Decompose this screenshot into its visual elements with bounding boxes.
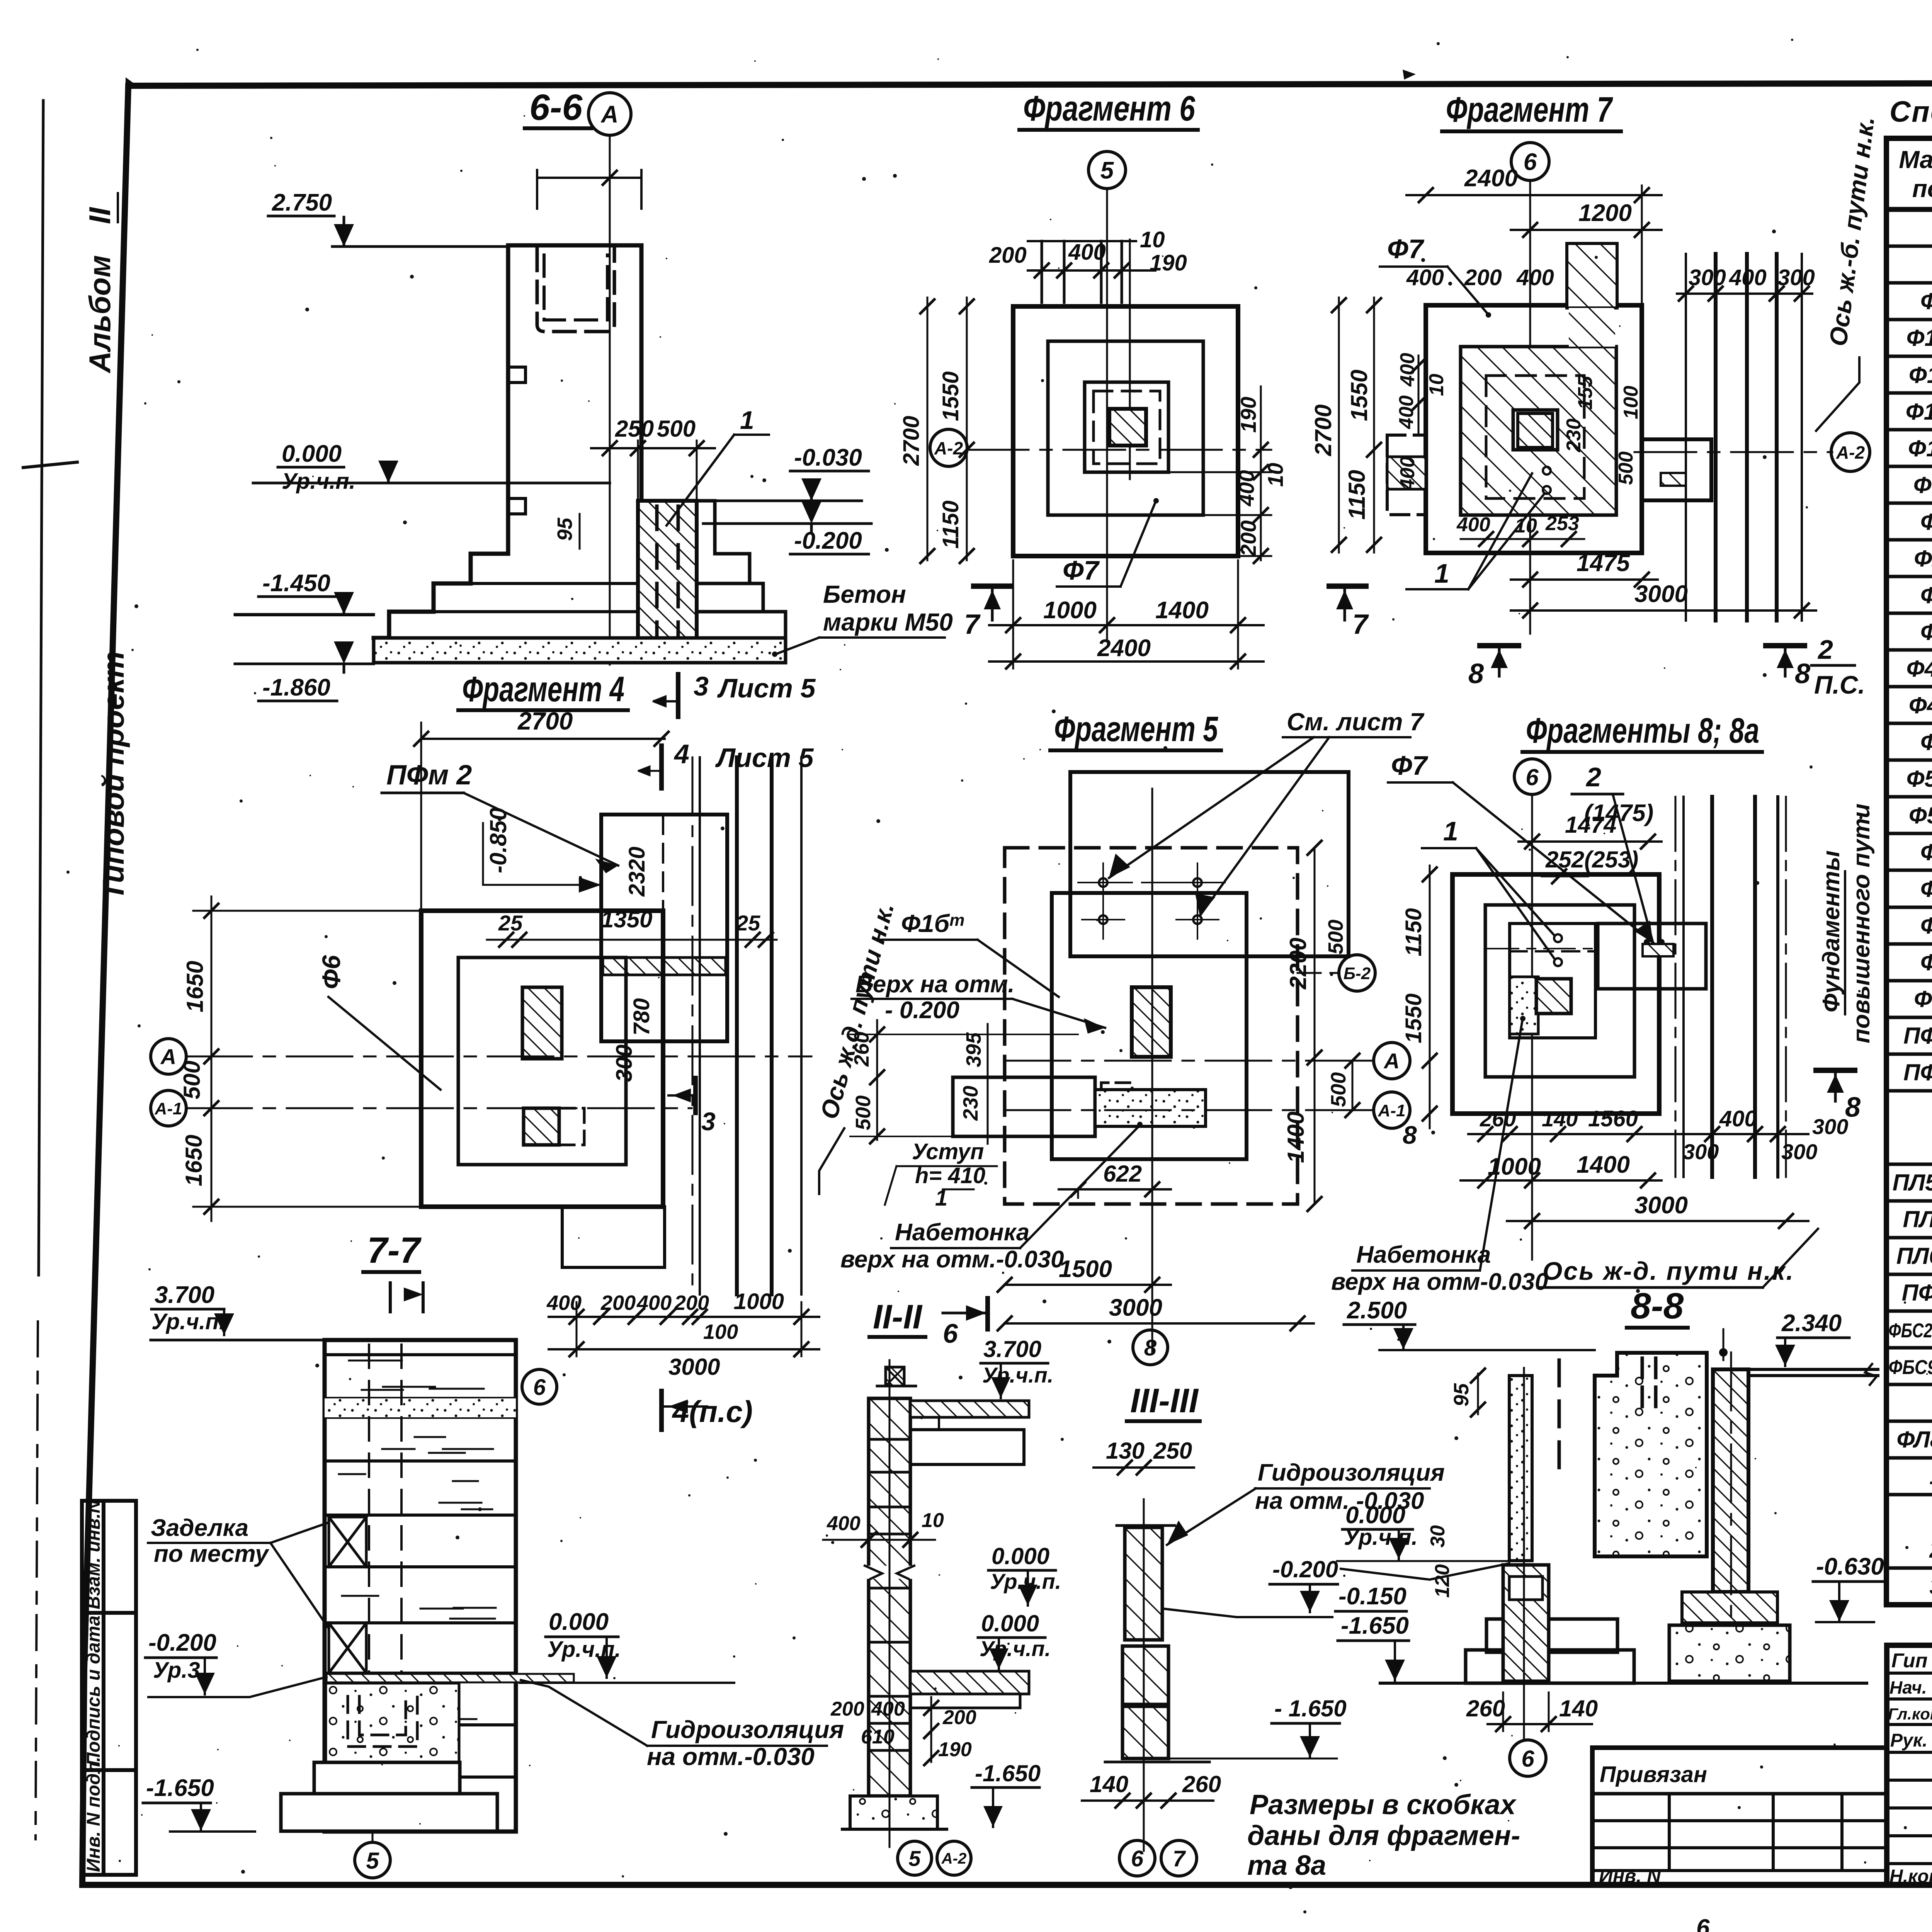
svg-text:30: 30 <box>1427 1525 1449 1548</box>
svg-text:Ф4ат: Ф4ат <box>1906 655 1932 682</box>
svg-text:200: 200 <box>1236 520 1260 557</box>
svg-text:1400: 1400 <box>1283 1112 1309 1163</box>
svg-text:7: 7 <box>964 609 981 640</box>
svg-text:Ур.ч.п.: Ур.ч.п. <box>1344 1525 1418 1550</box>
svg-text:190: 190 <box>1150 250 1187 276</box>
svg-text:Ф4: Ф4 <box>1920 619 1932 645</box>
svg-text:Ф5ат: Ф5ат <box>1906 765 1932 792</box>
svg-text:0.000: 0.000 <box>282 440 342 467</box>
svg-text:2320: 2320 <box>624 847 650 897</box>
svg-text:Ф1ан: Ф1ан <box>1909 361 1932 388</box>
svg-text:0.000: 0.000 <box>992 1543 1049 1569</box>
svg-text:253: 253 <box>1545 512 1579 535</box>
svg-text:Ф5: Ф5 <box>1920 729 1932 755</box>
svg-text:200: 200 <box>674 1291 709 1315</box>
svg-text:1550: 1550 <box>1401 993 1426 1043</box>
svg-text:ПФм1: ПФм1 <box>1903 1023 1932 1049</box>
svg-text:Ф2а: Ф2а <box>1914 546 1932 571</box>
svg-text:А-2: А-2 <box>934 438 963 458</box>
svg-text:500: 500 <box>1324 920 1347 954</box>
svg-text:500: 500 <box>179 1061 205 1099</box>
svg-text:5: 5 <box>908 1846 921 1871</box>
svg-text:П.С.: П.С. <box>1814 670 1865 699</box>
svg-text:Ф3: Ф3 <box>1920 582 1932 608</box>
svg-text:Инв. N подл.: Инв. N подл. <box>83 1757 104 1872</box>
svg-text:ПЛ6-4: ПЛ6-4 <box>1903 1206 1932 1232</box>
svg-text:6-6: 6-6 <box>529 87 583 128</box>
svg-text:2700: 2700 <box>517 707 573 735</box>
svg-text:190: 190 <box>1236 397 1260 433</box>
svg-text:повышенного пути: повышенного пути <box>1848 803 1875 1043</box>
svg-text:1474: 1474 <box>1565 812 1616 838</box>
svg-text:Ф8: Ф8 <box>1920 913 1932 939</box>
svg-text:Фрагмент 7: Фрагмент 7 <box>1446 90 1613 129</box>
svg-text:-0.630: -0.630 <box>1816 1553 1884 1580</box>
svg-text:400: 400 <box>1395 395 1418 429</box>
svg-text:3000: 3000 <box>1634 581 1688 607</box>
svg-text:7: 7 <box>1173 1846 1186 1871</box>
title block <box>1592 1604 1932 1932</box>
svg-text:260: 260 <box>1480 1107 1516 1131</box>
svg-text:610: 610 <box>861 1726 895 1748</box>
svg-text:622: 622 <box>1103 1161 1142 1187</box>
svg-text:Ф2: Ф2 <box>1920 509 1932 535</box>
svg-text:400: 400 <box>1406 265 1444 290</box>
svg-text:100: 100 <box>703 1320 738 1344</box>
Fragments 8, 8a plan <box>1331 711 1876 1295</box>
svg-text:2: 2 <box>1929 1537 1932 1563</box>
svg-text:Ф9: Ф9 <box>1920 949 1932 975</box>
svg-text:Верх на отм.: Верх на отм. <box>855 971 1015 998</box>
svg-text:1: 1 <box>1443 816 1458 846</box>
svg-text:Фрагмент 6: Фрагмент 6 <box>1023 89 1196 128</box>
svg-text:-1.860: -1.860 <box>262 674 330 701</box>
svg-text:500: 500 <box>1327 1072 1350 1107</box>
section 6-6 (top left foundation elevation) <box>235 87 953 911</box>
svg-text:Размеры в скобках: Размеры в скобках <box>1250 1789 1517 1820</box>
svg-text:100: 100 <box>1620 386 1642 419</box>
svg-text:1150: 1150 <box>1401 908 1426 956</box>
svg-text:7-7: 7-7 <box>367 1230 422 1271</box>
svg-text:Ф1бн: Ф1бн <box>1908 434 1932 461</box>
svg-text:0.000: 0.000 <box>981 1611 1039 1636</box>
svg-text:ПФ5-4: ПФ5-4 <box>1902 1280 1932 1306</box>
svg-text:3000: 3000 <box>1634 1192 1688 1219</box>
svg-text:Ф6: Ф6 <box>1920 839 1932 865</box>
svg-text:III-III: III-III <box>1130 1381 1199 1420</box>
svg-text:3.700: 3.700 <box>983 1336 1041 1362</box>
svg-text:-1.650: -1.650 <box>146 1775 214 1801</box>
svg-text:3: 3 <box>694 671 709 701</box>
svg-text:верх на отм.-0.030: верх на отм.-0.030 <box>840 1246 1064 1273</box>
svg-text:6: 6 <box>533 1375 546 1400</box>
svg-text:А: А <box>160 1044 176 1069</box>
svg-text:ФБС9.4.6-Т: ФБС9.4.6-Т <box>1889 1356 1932 1379</box>
svg-text:Фрагмент 4: Фрагмент 4 <box>462 670 624 709</box>
svg-text:120: 120 <box>1431 1564 1454 1598</box>
svg-text:Ф5ан: Ф5ан <box>1909 801 1932 828</box>
svg-text:300: 300 <box>1781 1139 1817 1164</box>
svg-text:2.340: 2.340 <box>1781 1310 1842 1337</box>
svg-text:3000: 3000 <box>668 1354 720 1380</box>
svg-text:Гип: Гип <box>1891 1650 1927 1672</box>
svg-text:Заделка: Заделка <box>151 1515 248 1541</box>
svg-text:25: 25 <box>498 911 523 935</box>
svg-text:7: 7 <box>1352 609 1369 640</box>
svg-text:А: А <box>600 101 619 128</box>
svg-text:- 0.200: - 0.200 <box>885 997 959 1024</box>
svg-text:-0.030: -0.030 <box>794 444 862 471</box>
svg-text:260: 260 <box>1466 1696 1505 1721</box>
svg-text:400: 400 <box>1396 456 1419 490</box>
svg-text:-1.650: -1.650 <box>1341 1612 1409 1639</box>
svg-text:1400: 1400 <box>1577 1151 1630 1178</box>
svg-text:Лист 5: Лист 5 <box>715 743 814 773</box>
svg-text:2.500: 2.500 <box>1347 1297 1407 1324</box>
svg-text:Нач. отд.: Нач. отд. <box>1889 1677 1932 1697</box>
svg-text:1: 1 <box>1434 558 1449 588</box>
svg-text:Гл.констр.: Гл.констр. <box>1888 1705 1932 1723</box>
svg-text:2200: 2200 <box>1285 938 1311 990</box>
svg-text:2700: 2700 <box>1310 405 1336 456</box>
svg-text:8: 8 <box>1403 1121 1417 1149</box>
svg-text:400: 400 <box>1068 240 1106 265</box>
svg-text:1: 1 <box>740 406 754 434</box>
svg-text:1650: 1650 <box>181 1135 207 1186</box>
svg-text:1150: 1150 <box>938 500 963 549</box>
svg-text:1650: 1650 <box>182 961 208 1012</box>
svg-text:6: 6 <box>943 1318 958 1349</box>
svg-text:1000: 1000 <box>1043 597 1097 624</box>
svg-text:Инв. N: Инв. N <box>1599 1865 1661 1887</box>
section 8-8 <box>1335 1286 1884 1776</box>
svg-text:1550: 1550 <box>1346 370 1372 421</box>
svg-text:ПФм2: ПФм2 <box>1903 1060 1932 1085</box>
svg-text:395: 395 <box>962 1032 985 1067</box>
svg-text:10: 10 <box>1140 227 1165 252</box>
svg-text:200: 200 <box>942 1706 976 1729</box>
svg-text:260: 260 <box>850 1032 873 1067</box>
svg-text:Ф4ан: Ф4ан <box>1909 691 1932 718</box>
svg-text:Лист 5: Лист 5 <box>717 673 816 703</box>
svg-text:Ф1в: Ф1в <box>1913 472 1932 498</box>
svg-text:Ур.ч.п.: Ур.ч.п. <box>151 1309 225 1334</box>
svg-text:А-2: А-2 <box>941 1850 966 1867</box>
svg-text:Фрагменты 8; 8а: Фрагменты 8; 8а <box>1526 711 1759 750</box>
Fragment 4 plan <box>151 757 900 1430</box>
svg-text:1350: 1350 <box>601 906 652 932</box>
svg-text:-1.450: -1.450 <box>262 570 330 597</box>
paper left edge line <box>39 100 43 1275</box>
svg-text:10: 10 <box>922 1509 944 1532</box>
svg-text:1000: 1000 <box>734 1289 784 1314</box>
svg-text:Ф1ат: Ф1ат <box>1906 324 1932 351</box>
svg-text:Рук. гр.: Рук. гр. <box>1890 1730 1932 1751</box>
svg-text:См. лист 7: См. лист 7 <box>1287 708 1425 736</box>
svg-text:Ф10: Ф10 <box>1914 986 1932 1012</box>
svg-text:Подпись и дата: Подпись и дата <box>83 1616 104 1766</box>
svg-text:даны для фрагмен-: даны для фрагмен- <box>1247 1820 1520 1851</box>
svg-text:8: 8 <box>1468 658 1484 689</box>
Fragment 5 plan <box>840 708 1425 1365</box>
svg-text:-0.150: -0.150 <box>1338 1583 1406 1610</box>
svg-text:250: 250 <box>615 416 654 442</box>
svg-text:400: 400 <box>1719 1106 1757 1131</box>
svg-text:25: 25 <box>736 911 760 935</box>
svg-text:II: II <box>83 207 117 224</box>
svg-text:6: 6 <box>1526 764 1539 790</box>
svg-text:10: 10 <box>1425 374 1448 396</box>
svg-text:-0.200: -0.200 <box>794 527 862 554</box>
svg-text:200: 200 <box>989 243 1027 268</box>
svg-text:А-1: А-1 <box>1378 1101 1406 1120</box>
svg-text:1400: 1400 <box>1155 597 1209 624</box>
svg-text:Ур.3: Ур.3 <box>153 1658 200 1683</box>
svg-text:2400: 2400 <box>1464 165 1518 192</box>
svg-text:-0.850: -0.850 <box>485 808 511 873</box>
svg-text:95: 95 <box>1450 1383 1473 1406</box>
svg-text:Б-2: Б-2 <box>1344 964 1371 983</box>
svg-text:5: 5 <box>1100 157 1114 184</box>
svg-text:ФБС24.4.6-Т: ФБС24.4.6-Т <box>1889 1320 1932 1342</box>
svg-text:300: 300 <box>1812 1114 1848 1139</box>
svg-text:Ф1: Ф1 <box>1920 288 1932 314</box>
svg-text:Взам. инв.N: Взам. инв.N <box>83 1499 104 1609</box>
svg-text:400: 400 <box>871 1698 905 1720</box>
svg-text:на отм.-0.030: на отм.-0.030 <box>647 1743 815 1770</box>
svg-text:ФЛ8.12: ФЛ8.12 <box>1896 1427 1932 1452</box>
svg-text:400: 400 <box>1516 265 1554 290</box>
svg-text:Ф7: Ф7 <box>1387 234 1425 264</box>
svg-text:1475: 1475 <box>1577 550 1630 577</box>
svg-text:Ф7: Ф7 <box>1063 555 1100 585</box>
svg-text:4: 4 <box>673 739 689 769</box>
svg-text:Набетонка: Набетонка <box>895 1219 1029 1246</box>
svg-text:А-2: А-2 <box>1836 442 1865 463</box>
svg-text:500: 500 <box>852 1095 875 1130</box>
svg-text:200: 200 <box>830 1698 864 1720</box>
svg-text:2.750: 2.750 <box>272 189 332 216</box>
svg-text:400: 400 <box>636 1291 672 1315</box>
note: sizes in brackets for fragment 8a <box>1247 1789 1520 1881</box>
svg-text:-0.200: -0.200 <box>148 1629 216 1656</box>
svg-text:3: 3 <box>1929 1573 1932 1599</box>
svg-text:2400: 2400 <box>1097 635 1151 662</box>
svg-text:0.000: 0.000 <box>549 1609 609 1635</box>
svg-text:Ур.ч.п.: Ур.ч.п. <box>282 469 355 494</box>
svg-text:Набетонка: Набетонка <box>1356 1242 1491 1268</box>
svg-text:1560: 1560 <box>1588 1106 1638 1131</box>
album label: Альбом II (rotated) <box>83 193 130 900</box>
svg-text:та 8а: та 8а <box>1247 1850 1326 1881</box>
svg-text:130: 130 <box>1106 1438 1145 1464</box>
svg-text:Гидроизоляция: Гидроизоляция <box>651 1716 844 1743</box>
svg-text:1: 1 <box>1929 1463 1932 1489</box>
svg-text:3.700: 3.700 <box>155 1282 214 1308</box>
svg-text:1550: 1550 <box>938 371 963 421</box>
svg-text:Ф6: Ф6 <box>317 954 345 989</box>
svg-text:верх на отм-0.030: верх на отм-0.030 <box>1331 1269 1548 1295</box>
svg-text:1150: 1150 <box>1344 470 1370 520</box>
svg-text:400: 400 <box>827 1512 861 1535</box>
section II-II <box>823 1298 1061 1875</box>
svg-text:5: 5 <box>366 1848 379 1874</box>
svg-text:8: 8 <box>1144 1335 1157 1361</box>
svg-text:ПЛ6-41: ПЛ6-41 <box>1896 1243 1932 1269</box>
svg-text:3: 3 <box>701 1107 716 1136</box>
svg-text:1500: 1500 <box>1059 1256 1112 1282</box>
svg-text:Н.контр.: Н.контр. <box>1889 1866 1932 1887</box>
svg-text:400: 400 <box>1234 470 1259 507</box>
Fragment 7 plan <box>1310 90 1880 699</box>
section 7-7 (bottom-left wall elevation) <box>143 1230 844 1878</box>
svg-text:95: 95 <box>553 517 577 541</box>
svg-text:Гидроизоляция: Гидроизоляция <box>1258 1459 1445 1486</box>
svg-text:200: 200 <box>600 1291 636 1315</box>
svg-text:2: 2 <box>1817 634 1833 665</box>
svg-text:А: А <box>1383 1049 1400 1073</box>
svg-text:Ф7: Ф7 <box>1391 750 1429 781</box>
svg-text:Уступ: Уступ <box>912 1139 984 1164</box>
svg-text:500: 500 <box>657 416 696 442</box>
svg-text:Ур.ч.п.: Ур.ч.п. <box>982 1363 1053 1387</box>
svg-text:300: 300 <box>1683 1139 1719 1164</box>
svg-text:300: 300 <box>612 1044 637 1082</box>
svg-text:400: 400 <box>1456 514 1490 536</box>
svg-text:140: 140 <box>1559 1696 1598 1721</box>
Fragment 6 plan (nested squares) <box>899 89 1369 668</box>
svg-text:Типовой проект: Типовой проект <box>96 651 130 900</box>
svg-text:2: 2 <box>1585 762 1601 792</box>
svg-text:260: 260 <box>1182 1771 1221 1797</box>
svg-text:ПЛ5-4-1: ПЛ5-4-1 <box>1893 1170 1932 1196</box>
svg-text:780: 780 <box>629 998 654 1036</box>
svg-text:190: 190 <box>938 1738 972 1761</box>
svg-text:Марка: Марка <box>1899 146 1932 173</box>
svg-text:2700: 2700 <box>899 416 924 466</box>
svg-text:-0.200: -0.200 <box>1272 1556 1338 1582</box>
svg-text:марки М50: марки М50 <box>823 608 953 636</box>
svg-text:230: 230 <box>959 1086 982 1121</box>
svg-text:- 1.650: - 1.650 <box>1274 1696 1347 1721</box>
svg-text:Альбом: Альбом <box>83 255 117 374</box>
svg-text:1200: 1200 <box>1578 200 1632 226</box>
left margin strip cells <box>82 1501 136 1875</box>
svg-text:252(253): 252(253) <box>1545 847 1638 872</box>
svg-text:Фрагмент 5: Фрагмент 5 <box>1054 709 1218 749</box>
svg-text:по месту: по месту <box>154 1541 270 1567</box>
svg-text:6: 6 <box>1521 1746 1534 1772</box>
specification table <box>1886 95 1932 1605</box>
svg-text:6: 6 <box>1696 1915 1710 1932</box>
svg-text:ПФм 2: ПФм 2 <box>386 760 472 791</box>
section III-III <box>1082 1381 1445 1876</box>
svg-text:230: 230 <box>1563 418 1585 452</box>
svg-text:155: 155 <box>1574 376 1597 410</box>
svg-text:Ф1бт: Ф1бт <box>1906 398 1932 425</box>
svg-text:6: 6 <box>1524 149 1537 175</box>
svg-text:Ф7: Ф7 <box>1920 876 1932 902</box>
svg-text:Бетон: Бетон <box>823 580 906 608</box>
svg-text:II-II: II-II <box>873 1298 923 1336</box>
svg-text:500: 500 <box>1615 451 1637 485</box>
svg-text:8: 8 <box>1795 658 1810 689</box>
svg-text:3000: 3000 <box>1109 1294 1162 1321</box>
svg-text:140: 140 <box>1542 1107 1578 1131</box>
svg-text:-1.650: -1.650 <box>975 1760 1041 1786</box>
svg-text:200: 200 <box>1464 265 1502 290</box>
svg-text:Привязан: Привязан <box>1600 1762 1707 1787</box>
svg-text:Фундаменты: Фундаменты <box>1818 850 1845 1012</box>
svg-text:А-1: А-1 <box>155 1099 182 1118</box>
svg-text:поз.: поз. <box>1912 175 1932 202</box>
svg-text:140: 140 <box>1090 1771 1128 1797</box>
svg-text:Ось ж-д. пути н.к.: Ось ж-д. пути н.к. <box>1543 1257 1794 1285</box>
svg-text:6: 6 <box>1131 1846 1144 1871</box>
svg-text:250: 250 <box>1153 1438 1192 1464</box>
